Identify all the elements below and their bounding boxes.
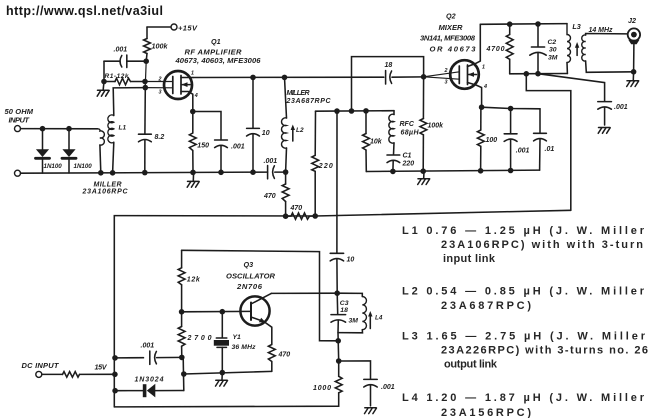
node: Q1 gate 2: [142, 79, 148, 85]
capacitor .001 (tank rail bypass): [538, 74, 628, 125]
capacitor .001 (oscillator output bypass): [339, 361, 395, 406]
node: [535, 71, 541, 77]
capacitor 18 (interstage coupling): [385, 62, 424, 84]
svg-text:3: 3: [445, 79, 448, 85]
node: [535, 21, 541, 27]
svg-text:23A687RPC: 23A687RPC: [286, 98, 332, 105]
svg-text:470: 470: [290, 205, 303, 212]
transistor Q2 dual-gate MOSFET mixer: [424, 24, 487, 107]
svg-text:3M: 3M: [548, 54, 558, 61]
capacitor .001 (supply bypass, oscillator): [115, 343, 183, 365]
inductor L2: [282, 77, 332, 172]
svg-text:1: 1: [191, 70, 194, 76]
svg-text:1N100: 1N100: [44, 163, 63, 170]
ground (crystal): [216, 373, 228, 387]
node: Q1 bias junction: [143, 58, 149, 64]
node: [363, 108, 369, 114]
terminal DC input: [36, 371, 42, 377]
svg-text:14 MHz: 14 MHz: [589, 27, 614, 34]
wire DC supply left rail: [114, 216, 315, 407]
wire (source to bypass cap): [193, 112, 221, 140]
svg-text:.001: .001: [614, 104, 628, 111]
label 50 OHM INPUT: [5, 107, 34, 125]
connector J2: [628, 16, 640, 72]
resistor 100 (Q2 source): [477, 107, 497, 171]
resistor 4700: [486, 24, 514, 74]
svg-text:1000: 1000: [313, 385, 331, 392]
node: [334, 108, 340, 114]
node: Q2 gate junction: [421, 74, 427, 80]
svg-text:30: 30: [549, 47, 557, 54]
ground (mixer bus): [418, 171, 430, 184]
node: [283, 213, 289, 219]
svg-text:150: 150: [197, 143, 209, 150]
svg-text:4: 4: [483, 84, 487, 90]
transistor Q3 2N706: [240, 293, 271, 344]
node: [312, 213, 318, 219]
svg-text:100k: 100k: [152, 42, 169, 51]
wire mixer ground bus: [366, 170, 539, 171]
svg-text:L3 1.65 — 2.75 µH (J. W. M: L3 1.65 — 2.75 µH (J. W. Miller: [402, 331, 646, 343]
resistor 100k (Q1 gate bias): [144, 27, 169, 61]
resistor 2700: [178, 312, 211, 358]
svg-text:.001: .001: [381, 384, 395, 391]
svg-text:Q3: Q3: [244, 260, 254, 269]
node: [507, 21, 513, 27]
wire Q3 base line: [182, 310, 251, 312]
caption text L1: [402, 225, 645, 265]
node: [112, 372, 118, 378]
inductor L3 secondary: [575, 27, 634, 73]
capacitor 10 (Q1 drain): [247, 77, 270, 172]
svg-text:3: 3: [159, 90, 162, 96]
svg-text:10: 10: [347, 257, 355, 264]
inductor L3 primary: [567, 22, 581, 74]
svg-text:C3: C3: [340, 300, 349, 307]
node: [218, 170, 224, 176]
node: [524, 71, 530, 77]
svg-text:2: 2: [444, 68, 448, 74]
node: [349, 108, 355, 114]
wire tank bottom rail: [510, 73, 568, 75]
crystal Y1 36 MHz: [214, 312, 256, 373]
svg-text:470: 470: [263, 193, 276, 200]
node: [110, 170, 116, 176]
svg-text:2N706: 2N706: [236, 282, 263, 291]
svg-text:2: 2: [158, 77, 162, 83]
svg-text:100: 100: [486, 137, 498, 144]
node: tank bottom junction: [335, 338, 341, 344]
capacitor 8.2 (gate to ground): [139, 88, 165, 173]
svg-text:100k: 100k: [428, 123, 445, 130]
svg-text:output link: output link: [444, 358, 498, 370]
node: [250, 75, 256, 81]
input terminal top: [15, 126, 21, 132]
node: [508, 168, 514, 174]
capacitor C1 220: [387, 153, 414, 172]
svg-text:10k: 10k: [370, 139, 383, 146]
svg-text:C1: C1: [403, 153, 412, 160]
svg-text:.01: .01: [545, 146, 555, 153]
svg-text:Q2: Q2: [446, 12, 456, 21]
diode 1N100 (second): [62, 129, 92, 173]
svg-text:Q1: Q1: [211, 37, 221, 46]
svg-text:36 MHz: 36 MHz: [232, 344, 257, 351]
node: [190, 170, 196, 176]
node: [478, 168, 484, 174]
svg-text:3N141, MFE3008: 3N141, MFE3008: [420, 34, 476, 43]
wire ground bus Q1 stage: [21, 172, 268, 173]
ground (tank bypass): [598, 128, 610, 134]
wire (bias node to gates): [145, 61, 146, 88]
svg-text:L1: L1: [119, 125, 127, 132]
svg-text:220: 220: [318, 163, 333, 170]
wire Q2 gate rail: [316, 110, 395, 113]
node: [101, 79, 107, 85]
resistor 150 (Q1 source): [189, 112, 209, 173]
svg-text:C2: C2: [548, 39, 557, 46]
wire +15V riser (tank rail to bias line): [526, 74, 571, 211]
svg-text:23A106RPC) with with 3-turn: 23A106RPC) with with 3-turn: [441, 239, 643, 251]
resistor 470 horizontal (bias): [286, 205, 316, 219]
svg-text:.001: .001: [231, 144, 245, 151]
wire oscillator top rail: [182, 250, 339, 340]
node: Q1 source junction: [190, 109, 196, 115]
svg-text:4700: 4700: [486, 46, 505, 53]
svg-text:3M: 3M: [349, 318, 359, 325]
svg-text:L4 1.20 — 1.87 µH (J. W. M: L4 1.20 — 1.87 µH (J. W. Miller: [402, 392, 645, 404]
wire input line: [21, 128, 98, 130]
svg-text:+15V: +15V: [178, 24, 198, 33]
svg-text:DC INPUT: DC INPUT: [22, 361, 60, 370]
node: [40, 126, 46, 132]
svg-text:L3: L3: [572, 22, 580, 31]
svg-text:input link: input link: [443, 253, 496, 265]
node: [390, 169, 396, 175]
caption text L4: [402, 392, 645, 418]
inductor L4: [337, 293, 383, 333]
ground (oscillator bypass): [365, 408, 377, 414]
wire (bypass to ground line): [182, 357, 185, 390]
node: [181, 371, 187, 377]
svg-text:L1 0.76 — 1.25 µH (J. W. M: L1 0.76 — 1.25 µH (J. W. Miller: [402, 225, 645, 237]
resistor R1 12k: [104, 73, 145, 85]
wire Q2 source rail: [482, 107, 540, 109]
svg-text:68µH: 68µH: [401, 130, 420, 137]
capacitor .001 (series, L2 cold end): [264, 158, 286, 179]
svg-text:L2 0.54 — 0.85 µH (J. W. M: L2 0.54 — 0.85 µH (J. W. Miller: [402, 285, 645, 297]
wire bias line: [315, 210, 571, 216]
label Q1 RF AMPLIFIER: [175, 37, 262, 65]
svg-text:MILLER: MILLER: [94, 181, 122, 188]
svg-text:15V: 15V: [95, 363, 108, 372]
svg-text:1: 1: [482, 65, 485, 71]
node: [282, 75, 288, 81]
capacitor C2 trimmer 30: [530, 24, 558, 74]
power terminal +15V: [147, 24, 198, 33]
resistor 10k: [363, 111, 383, 172]
svg-text:http://www.qsl.net/va3iul: http://www.qsl.net/va3iul: [6, 4, 163, 18]
svg-text:4: 4: [194, 93, 198, 99]
caption text L3: [402, 331, 648, 371]
label Q3 OSCILLATOR 2N706: [226, 260, 276, 291]
wire Q1 drain line: [193, 76, 384, 78]
svg-text:23A156RPC): 23A156RPC): [441, 407, 531, 418]
caption text L2: [402, 285, 645, 312]
inductor L1: [108, 88, 145, 173]
node: [420, 168, 426, 174]
svg-text:L2: L2: [296, 127, 304, 134]
wire (left bias vertical): [103, 61, 105, 81]
svg-text:L4: L4: [375, 314, 383, 321]
wire tank stem: [336, 293, 339, 314]
wire bottom supply bus: [114, 393, 338, 407]
svg-text:1N3024: 1N3024: [135, 377, 164, 384]
svg-text:OSCILLATOR: OSCILLATOR: [226, 271, 276, 280]
svg-text:RFC: RFC: [400, 121, 415, 128]
svg-text:INPUT: INPUT: [9, 115, 31, 124]
capacitor .001 (Q1 gate bypass): [104, 47, 146, 68]
svg-text:12k: 12k: [187, 277, 201, 284]
svg-text:Y1: Y1: [233, 334, 242, 341]
wire tank top rail: [480, 23, 567, 26]
node: [508, 106, 514, 112]
resistor (DC input series): [42, 363, 115, 378]
ground (Q1 stage bus): [187, 172, 199, 187]
node: [336, 358, 342, 364]
resistor 220: [312, 111, 333, 216]
ground (J2): [627, 72, 639, 87]
node: [220, 309, 226, 315]
wire top loop (gate rail to Q2 gates): [352, 57, 424, 111]
svg-text:23A226RPC) with 3-turns no. 26: 23A226RPC) with 3-turns no. 26: [441, 345, 648, 357]
label Q2 MIXER: [420, 12, 476, 54]
svg-text:8.2: 8.2: [155, 134, 165, 141]
capacitor 10 (oscillator injection): [330, 253, 354, 293]
capacitor C3 18: [331, 300, 358, 361]
svg-text:R1-12k: R1-12k: [105, 73, 129, 80]
node: Q3 base junction: [179, 309, 185, 315]
input terminal bottom: [15, 170, 21, 176]
wire oscillator injection line: [336, 111, 338, 253]
svg-text:23A106RPC: 23A106RPC: [82, 188, 129, 195]
svg-text:18: 18: [340, 307, 348, 314]
svg-text:18: 18: [385, 62, 393, 69]
node: oscillator tank top: [334, 290, 340, 296]
transistor Q1 dual-gate MOSFET: [145, 70, 198, 111]
node: [220, 370, 226, 376]
resistor 470 vertical (bias): [263, 172, 289, 216]
resistor 12k: [178, 250, 201, 311]
wire Q3 collector line: [271, 292, 337, 294]
svg-text:OR 40673: OR 40673: [430, 45, 477, 54]
capacitor .001 (Q2 source bypass): [504, 109, 529, 171]
node: [179, 355, 185, 361]
node: [142, 170, 148, 176]
svg-text:MILLER: MILLER: [287, 90, 310, 97]
label MILLER 23A106RPC: [82, 181, 129, 195]
svg-text:.001: .001: [264, 158, 278, 165]
svg-text:.001: .001: [516, 148, 530, 155]
node: L2 cold end: [283, 169, 289, 175]
node: [250, 169, 256, 175]
node: Q1 gate 1: [143, 85, 149, 91]
node: [66, 126, 72, 132]
resistor 100k (Q2 gate leak): [420, 77, 444, 171]
diode 1N100 (first): [36, 129, 63, 173]
ground (Q1 bias network): [97, 82, 109, 97]
resistor 1000: [313, 361, 342, 393]
svg-text:.001: .001: [114, 47, 128, 54]
node: [631, 69, 637, 75]
svg-text:J2: J2: [628, 16, 636, 25]
svg-text:.001: .001: [141, 343, 155, 350]
svg-text:470: 470: [278, 352, 291, 359]
capacitor .01 (Q2 source bypass): [534, 109, 555, 170]
resistor 470 (Q3 emitter): [268, 345, 290, 372]
svg-text:23A687RPC): 23A687RPC): [441, 300, 531, 312]
inductor L1 input link: [98, 129, 105, 173]
svg-text:10: 10: [262, 130, 270, 137]
node: [112, 388, 118, 394]
node: [112, 355, 118, 361]
inductor RFC 68uH: [389, 111, 420, 155]
svg-text:40673, 40603, MFE3006: 40673, 40603, MFE3006: [175, 56, 262, 65]
svg-text:220: 220: [402, 160, 415, 167]
svg-text:1N100: 1N100: [74, 163, 93, 170]
diode 1N3024: [115, 377, 184, 398]
capacitor .001 (Q1 source bypass): [215, 140, 245, 172]
node: [98, 170, 104, 176]
wire oscillator ground line: [184, 371, 272, 374]
node: [479, 104, 485, 110]
svg-text:MIXER: MIXER: [439, 23, 464, 32]
